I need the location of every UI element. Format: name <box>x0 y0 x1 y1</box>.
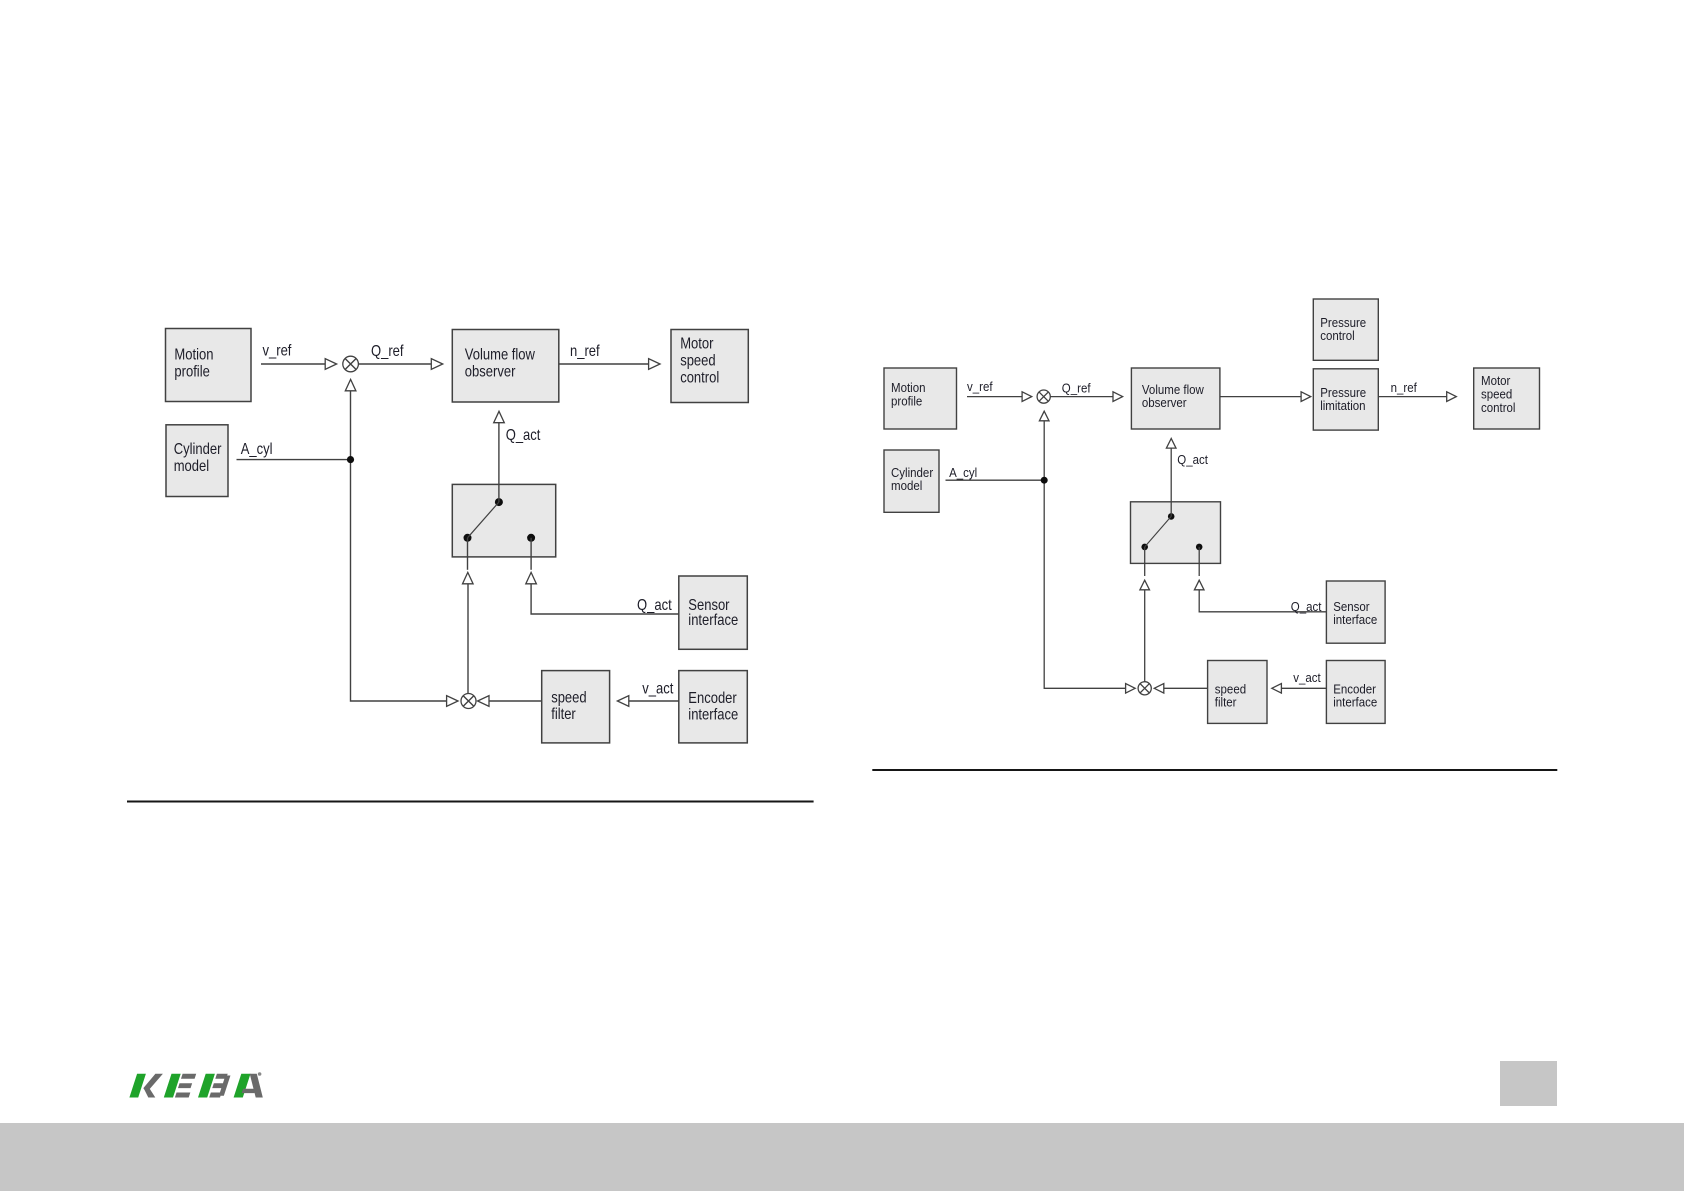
logo B gray bowls <box>209 1074 231 1098</box>
logo K green stroke <box>129 1074 146 1098</box>
block Encoder interface (left) <box>679 671 748 743</box>
svg-text:profile: profile <box>891 394 923 409</box>
wire switch top to Volume flow observer (right) <box>1170 448 1172 516</box>
svg-text:control: control <box>1481 401 1516 416</box>
footer gray band <box>0 1123 1684 1191</box>
block Motor speed control (right) <box>1474 368 1540 429</box>
svg-text:Motor: Motor <box>680 336 713 353</box>
sum junction J1 (left) <box>343 356 359 372</box>
switch box S1 (left) <box>452 484 555 557</box>
arrowhead v_act into speed filter (right) <box>1272 684 1282 694</box>
arrowhead into J2 from left (right) <box>1126 684 1136 694</box>
svg-text:control: control <box>1320 328 1355 343</box>
wire observer to Pressure limitation (right) <box>1220 396 1301 398</box>
block speed filter (left) <box>542 671 610 743</box>
wire J2 up to switch (right) <box>1144 590 1146 682</box>
KEBA logo <box>129 1074 270 1098</box>
svg-text:v_ref: v_ref <box>263 343 292 360</box>
block Motor speed control (left) <box>671 330 748 403</box>
block Sensor interface (left) <box>679 576 748 649</box>
svg-text:Q_act: Q_act <box>637 597 672 614</box>
arrowhead into J2 from right (right) <box>1154 684 1164 694</box>
sum junction J2 (left) <box>461 694 476 709</box>
arrowhead into J2 from left <box>447 696 458 707</box>
wire v_ref (right) <box>967 396 1022 398</box>
block Pressure limitation (right) <box>1313 369 1378 430</box>
logo A gray leg and crossbar <box>240 1074 270 1098</box>
arrowhead n_ref into Motor speed control <box>649 359 660 370</box>
svg-text:Q_act: Q_act <box>1291 600 1322 615</box>
svg-text:filter: filter <box>1215 695 1237 710</box>
arrowhead Q_act into Volume flow observer <box>494 411 505 422</box>
logo A green stroke <box>234 1074 251 1098</box>
arrowhead feedback into J1 from below <box>345 379 356 390</box>
switch S2 bottom-right contact <box>1196 544 1203 551</box>
svg-text:Cylinder: Cylinder <box>174 441 222 458</box>
arrowhead feedback into J1 from below (right) <box>1039 411 1049 421</box>
block Encoder interface (right) <box>1326 661 1385 724</box>
block Motion profile (right) <box>884 368 957 429</box>
sum junction J1 (right) <box>1037 390 1050 403</box>
switch S1 bottom-right contact <box>527 534 535 542</box>
logo B green stroke <box>198 1074 215 1098</box>
wire Sensor interface to switch (left) <box>531 584 679 614</box>
node junction A_cyl (right) <box>1041 477 1048 484</box>
switch S1 bottom-left contact <box>464 534 472 542</box>
arrowhead up into switch right input (right) <box>1194 580 1204 590</box>
logo E green stroke <box>164 1074 181 1098</box>
wire Q_ref (left) <box>358 363 431 365</box>
wire stub switch bottom-right (right) <box>1198 547 1200 576</box>
svg-text:Encoder: Encoder <box>688 690 737 707</box>
wire J2 up to switch (left) <box>467 584 469 694</box>
block Pressure control (right) <box>1313 299 1378 360</box>
node junction A_cyl (left) <box>347 456 354 463</box>
wire v_ref (left) <box>261 363 325 365</box>
logo registered trademark mark <box>258 1072 262 1076</box>
arrowhead into J2 from right <box>478 696 489 707</box>
svg-text:observer: observer <box>465 363 516 380</box>
svg-text:limitation: limitation <box>1320 399 1365 414</box>
svg-text:Q_act: Q_act <box>1177 453 1208 468</box>
arrowhead up into switch left input (right) <box>1140 580 1150 590</box>
svg-text:v_act: v_act <box>1293 671 1321 686</box>
svg-text:A_cyl: A_cyl <box>241 441 273 458</box>
svg-text:n_ref: n_ref <box>1391 381 1418 396</box>
block Cylinder model (right) <box>884 450 939 512</box>
svg-text:interface: interface <box>1333 695 1377 710</box>
svg-text:speed: speed <box>551 690 586 707</box>
switch box S2 (right) <box>1131 502 1221 564</box>
svg-text:speed: speed <box>680 353 715 370</box>
logo E gray bars <box>175 1074 197 1098</box>
sum junction J2 (right) <box>1138 682 1151 695</box>
switch S2 blade <box>1145 516 1172 547</box>
wire feedback vertical (right) <box>1044 421 1125 689</box>
wire n_ref (left) <box>559 363 649 365</box>
svg-text:observer: observer <box>1142 396 1187 411</box>
wire v_act Encoder to speed filter (right) <box>1281 687 1326 689</box>
svg-text:filter: filter <box>551 706 576 723</box>
wire switch top to Volume flow observer (left) <box>498 423 500 502</box>
svg-text:model: model <box>174 458 209 475</box>
wire stub switch bottom-left (left) <box>467 538 469 570</box>
wire A_cyl (right) <box>946 479 1045 481</box>
wire speed filter to J2 (right) <box>1164 687 1208 689</box>
switch S1 top contact <box>495 498 503 506</box>
wire speed filter to J2 (left) <box>489 700 542 702</box>
block Volume flow observer (right) <box>1131 368 1220 429</box>
block Sensor interface (right) <box>1326 581 1385 643</box>
arrowhead Q_ref into Volume flow observer <box>431 359 442 370</box>
svg-text:speed: speed <box>1481 387 1512 402</box>
svg-text:A_cyl: A_cyl <box>949 466 977 481</box>
wire feedback vertical (left) <box>351 391 447 701</box>
footer gray page-number box <box>1500 1061 1557 1106</box>
block speed filter (right) <box>1208 661 1267 724</box>
wire n_ref (right) <box>1378 396 1446 398</box>
wire stub switch bottom-right (left) <box>530 538 532 570</box>
block Volume flow observer (left) <box>452 330 559 403</box>
separator rule under left diagram <box>127 801 814 803</box>
switch S2 top contact <box>1168 513 1175 520</box>
svg-text:Volume flow: Volume flow <box>465 346 536 363</box>
arrowhead v_ref into J1 (right) <box>1022 392 1032 402</box>
switch S2 bottom-left contact <box>1141 544 1148 551</box>
block Cylinder model (left) <box>166 425 228 497</box>
arrowhead v_act into speed filter <box>617 696 628 707</box>
svg-text:Q_act: Q_act <box>506 427 541 444</box>
svg-text:Q_ref: Q_ref <box>1062 381 1091 396</box>
arrowhead v_ref into J1 <box>325 359 336 370</box>
svg-text:v_act: v_act <box>642 681 673 698</box>
arrowhead up into switch right input <box>526 572 537 583</box>
svg-text:profile: profile <box>174 363 209 380</box>
svg-text:model: model <box>891 479 922 494</box>
separator rule under right diagram <box>872 769 1557 771</box>
arrowhead n_ref into Motor speed control (right) <box>1447 392 1457 402</box>
logo K gray arms <box>140 1074 163 1098</box>
svg-text:control: control <box>680 370 719 387</box>
arrowhead Q_act into Volume flow observer (right) <box>1166 439 1176 449</box>
switch S1 blade <box>468 502 499 538</box>
svg-text:interface: interface <box>1333 613 1377 628</box>
block Motion profile (left) <box>166 329 252 402</box>
wire A_cyl (left) <box>237 459 351 461</box>
svg-text:interface: interface <box>688 707 738 724</box>
wire v_act Encoder to speed filter (left) <box>629 700 679 702</box>
arrowhead into Pressure limitation (right) <box>1301 392 1311 402</box>
wire Sensor interface to switch (right) <box>1199 590 1326 612</box>
svg-text:interface: interface <box>688 612 738 629</box>
svg-text:v_ref: v_ref <box>967 380 993 395</box>
wire stub switch bottom-left (right) <box>1144 547 1146 576</box>
arrowhead up into switch left input <box>463 572 474 583</box>
svg-text:n_ref: n_ref <box>570 343 600 360</box>
svg-text:Q_ref: Q_ref <box>371 343 404 360</box>
svg-text:Motor: Motor <box>1481 374 1510 389</box>
wire Q_ref (right) <box>1050 396 1113 398</box>
arrowhead Q_ref into Volume flow observer (right) <box>1113 392 1123 402</box>
svg-text:Motion: Motion <box>174 346 213 363</box>
